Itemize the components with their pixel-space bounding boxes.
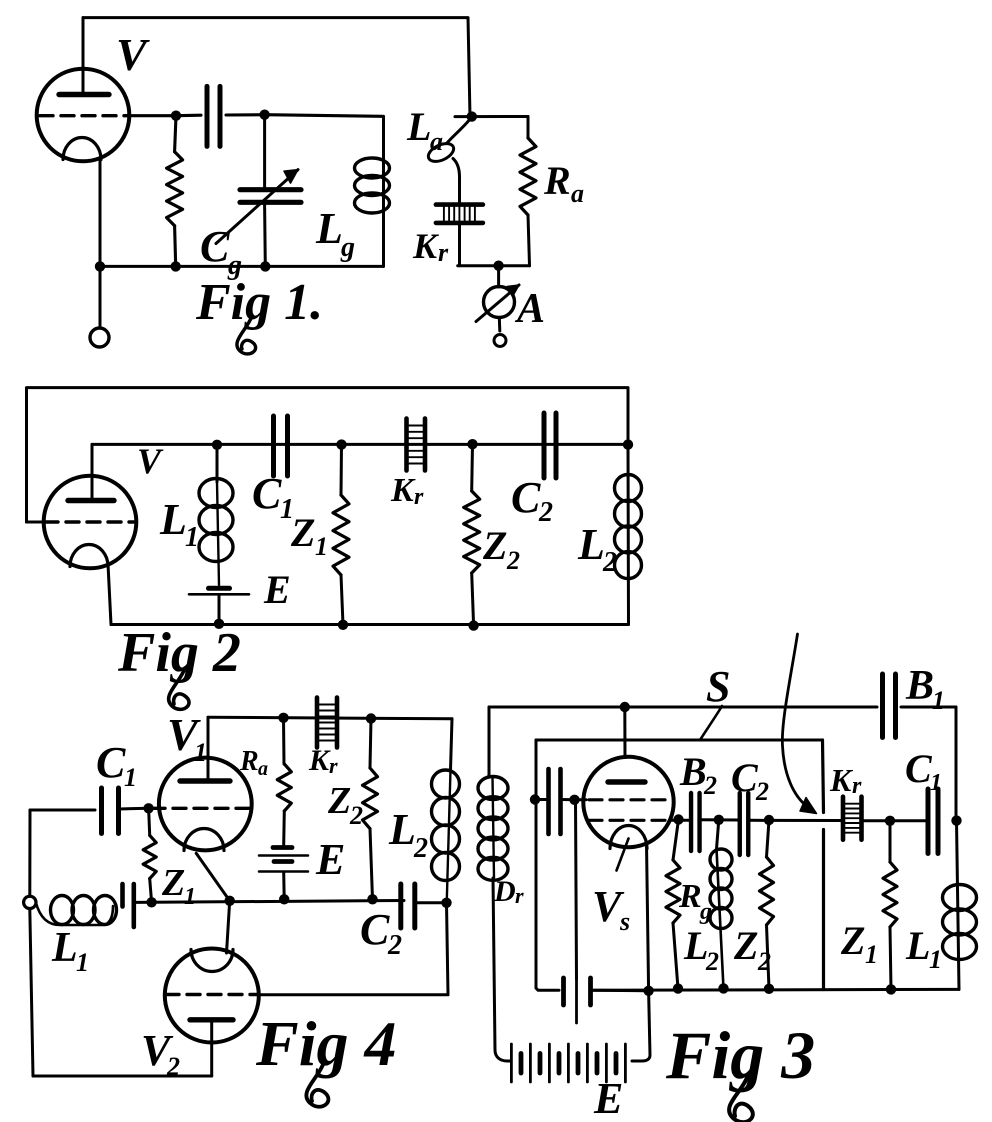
wire lower dashed to node	[670, 819, 691, 822]
svg-text:2: 2	[349, 801, 363, 830]
capacitor C1 Fig4	[99, 788, 104, 834]
svg-text:C: C	[96, 738, 126, 787]
wire grid bias drop	[576, 800, 577, 979]
inductor L2 Fig4	[451, 719, 453, 770]
wire cathode to battery E	[632, 991, 650, 1061]
svg-text:Fig 2: Fig 2	[117, 622, 241, 684]
triode Vs lower grid dashed	[589, 819, 670, 822]
wire mid bus Fig4	[136, 901, 404, 903]
svg-text:a: a	[571, 179, 584, 208]
resistor Ra	[527, 117, 530, 139]
wire anode bus Fig2	[92, 443, 628, 446]
terminal below ammeter	[494, 335, 506, 347]
wire cathode drop Fig2	[108, 564, 111, 625]
bias cell short plate 2	[588, 978, 593, 1005]
wire bottom rail right branch	[458, 264, 530, 267]
resistor Z1 Fig3	[889, 821, 892, 862]
node Z2 top Fig3	[764, 815, 774, 825]
svg-text:C: C	[905, 746, 933, 791]
pointer S to frame	[700, 706, 722, 740]
node anode top Fig3	[620, 702, 630, 712]
wire left edge upper Fig4	[28, 810, 31, 896]
svg-text:Z: Z	[840, 918, 865, 963]
battery E cell Fig2	[209, 586, 230, 591]
wire cathode drop	[99, 158, 102, 328]
wire Vs cathode drop	[647, 843, 649, 991]
terminal left Fig4	[24, 896, 36, 908]
ammeter A	[484, 287, 515, 318]
node Z1 top Fig3	[885, 816, 895, 826]
svg-text:K: K	[829, 762, 854, 798]
node Cg top junction	[259, 110, 269, 120]
triode Vs envelope	[583, 757, 673, 847]
triode V1 grid dashed	[152, 807, 250, 810]
wire C1 to grid node	[119, 807, 149, 811]
svg-text:g: g	[340, 232, 355, 263]
capacitor C2 Fig2	[542, 413, 547, 478]
inductor La single loop	[447, 117, 472, 143]
node grid-leak bottom	[171, 261, 181, 271]
switch S lower blade	[822, 830, 825, 990]
svg-text:1: 1	[124, 763, 137, 792]
inductor Dr choke	[493, 777, 495, 878]
svg-text:2: 2	[703, 771, 717, 800]
triode V2 filament dome inverted	[191, 950, 233, 972]
triode V grid (dashed)	[40, 114, 128, 117]
curved arrow to switch	[782, 634, 807, 807]
wire left to C1	[30, 809, 95, 812]
flourish under Fig4 g	[306, 1062, 328, 1107]
node L2 bottom Fig3	[718, 983, 728, 993]
pointer Vs to tube	[617, 839, 629, 871]
resistor Z1 Fig4	[149, 808, 150, 835]
node Rg top	[673, 814, 683, 824]
svg-text:K: K	[412, 226, 440, 266]
node grid junction Fig3	[569, 795, 579, 805]
svg-text:E: E	[315, 835, 345, 884]
svg-text:Z: Z	[733, 923, 758, 968]
node Z2 bottom	[468, 620, 478, 630]
bias cell short plate	[561, 978, 566, 1005]
triode V1 plate bar	[180, 778, 230, 783]
svg-text:L: L	[159, 495, 187, 544]
wire top rail Fig4	[208, 717, 452, 719]
svg-text:R: R	[239, 746, 259, 777]
svg-text:a: a	[430, 127, 443, 156]
wire junction crossbar	[455, 115, 528, 118]
svg-text:L: L	[388, 805, 416, 854]
resistor Z2 Fig4	[370, 719, 371, 769]
flourish under Fig3 g	[729, 1075, 753, 1122]
svg-text:B: B	[905, 663, 934, 709]
triode V1 envelope	[159, 758, 252, 851]
resistor Z1 Fig2	[340, 445, 344, 495]
crystal Kr Fig3	[841, 797, 846, 840]
node battery bottom Fig4	[279, 894, 289, 904]
node Cg bottom	[260, 261, 270, 271]
battery E Fig4 two cells	[273, 845, 292, 850]
node Z2 bottom Fig3	[764, 984, 774, 994]
wire top rail Fig1	[83, 18, 470, 117]
svg-text:R: R	[678, 878, 702, 915]
resistor Z2 Fig2	[470, 444, 474, 491]
svg-text:Z: Z	[290, 510, 315, 555]
cell bar short Fig4	[120, 884, 125, 907]
svg-text:S: S	[706, 662, 730, 711]
svg-text:Z: Z	[327, 780, 351, 822]
inductor L1 Fig4 horizontal	[36, 902, 113, 925]
wire bottom rail Fig4	[33, 1075, 212, 1078]
capacitor C1 Fig3	[926, 789, 931, 854]
svg-text:r: r	[438, 238, 449, 267]
wire C2 to switch region	[749, 819, 841, 822]
svg-text:C: C	[360, 905, 390, 954]
node cathode bottom	[95, 261, 105, 271]
wire V1 cathode diagonal	[196, 853, 230, 953]
crystal Kr Fig4	[315, 698, 320, 748]
svg-text:r: r	[852, 773, 862, 799]
wire cell to bus	[593, 989, 649, 993]
wire ammeter to terminal	[498, 318, 502, 332]
triode Vs upper grid dashed	[589, 798, 668, 801]
wire right edge top Fig3	[955, 707, 958, 821]
wire anode riser Vs	[623, 707, 626, 758]
node ammeter junction	[493, 261, 503, 271]
battery E Fig3 plates	[510, 1044, 513, 1082]
svg-text:2: 2	[506, 546, 520, 575]
svg-text:L: L	[683, 923, 708, 968]
crystal Kr Fig1	[436, 202, 483, 207]
svg-text:K: K	[308, 744, 331, 777]
node L2 bottom Fig4	[441, 898, 451, 908]
triode V filament dome	[63, 138, 101, 160]
triode V envelope	[37, 69, 130, 162]
node grid junction	[171, 111, 181, 121]
flourish under Fig1 g	[237, 316, 256, 354]
triode V2 grid dashed	[166, 993, 258, 996]
svg-text:2: 2	[387, 930, 402, 961]
triode V Fig2 filament dome	[70, 545, 108, 567]
terminal bottom left	[90, 328, 109, 347]
capacitor C2 Fig4	[398, 884, 403, 928]
svg-text:Fig 3: Fig 3	[665, 1017, 815, 1093]
svg-text:2: 2	[755, 777, 769, 806]
svg-text:1: 1	[315, 532, 328, 561]
inductor L1 Fig3	[957, 821, 960, 990]
wire grid rail to capacitor	[176, 114, 201, 118]
wire inner frame bottom to cell	[536, 988, 559, 990]
wire anode riser Fig2	[91, 444, 94, 501]
wire capacitor to node Cg	[226, 113, 265, 116]
triode Vs plate bar	[608, 779, 645, 784]
wire left edge top Fig3	[488, 707, 491, 777]
inductor Lg	[382, 116, 385, 266]
node Z2 top Fig4	[366, 713, 376, 723]
svg-text:C: C	[252, 469, 282, 518]
node Z1 bottom Fig4	[146, 897, 156, 907]
inductor L2 Fig2	[627, 445, 631, 625]
svg-text:L: L	[905, 923, 930, 968]
svg-text:Fig 1.: Fig 1.	[195, 274, 323, 331]
resistor Ra Fig4	[282, 718, 286, 764]
svg-text:Fig 4: Fig 4	[255, 1008, 396, 1079]
node L1 top	[212, 440, 222, 450]
capacitor grid Fig3	[546, 769, 551, 834]
svg-text:r: r	[414, 484, 424, 510]
node cathode bus Fig3	[643, 986, 653, 996]
wire inner frame top Fig3	[536, 739, 823, 742]
svg-text:Z: Z	[161, 862, 185, 904]
node right edge Fig3	[951, 815, 961, 825]
inductor L2 Fig3	[717, 820, 719, 849]
capacitor grid series	[205, 86, 210, 146]
svg-text:1: 1	[76, 948, 89, 977]
wire to ammeter	[497, 266, 500, 287]
svg-text:B: B	[679, 749, 707, 794]
triode V2 plate bar	[190, 1017, 233, 1022]
wire inner frame left Fig3	[535, 740, 538, 988]
wire grid cap leads	[536, 798, 548, 801]
flourish under Fig2 g	[169, 668, 189, 709]
wire anode riser to top rail	[82, 18, 85, 95]
triode V1 filament dome	[184, 829, 224, 851]
svg-text:V: V	[137, 441, 164, 481]
wire C2 to right node	[415, 901, 447, 904]
wire right drop to V2 grid	[259, 903, 448, 995]
inductor L1 Fig2	[216, 445, 219, 482]
svg-text:L: L	[51, 925, 78, 971]
node Z2 bottom Fig4	[367, 894, 377, 904]
wire anode riser V1	[207, 717, 210, 781]
arrow through Cg	[216, 170, 298, 244]
svg-text:2: 2	[705, 947, 719, 976]
capacitor C2 Fig3	[738, 793, 742, 855]
node right top corner	[623, 439, 633, 449]
wire bottom rail Fig1 left	[100, 265, 384, 268]
svg-text:a: a	[258, 758, 268, 780]
node Z1 bottom Fig3	[886, 984, 896, 994]
svg-text:C: C	[511, 473, 541, 522]
wire Dr to battery	[493, 878, 511, 1061]
svg-text:2: 2	[538, 497, 553, 528]
crystal Kr Fig2	[404, 419, 409, 471]
triode V Fig2 grid dashed	[45, 520, 134, 523]
svg-text:Z: Z	[482, 523, 507, 568]
triode V2 envelope	[165, 949, 259, 1043]
capacitor Cg variable	[263, 115, 266, 188]
node Ra top	[278, 713, 288, 723]
wire Kr to bottom	[458, 225, 461, 266]
wire Kr to Z1 node	[864, 819, 928, 822]
resistor Rg	[673, 820, 679, 861]
triode V Fig2 plate bar	[68, 498, 114, 503]
node Z1 top	[336, 439, 346, 449]
capacitor B1	[880, 674, 885, 738]
svg-text:E: E	[593, 1074, 623, 1122]
triode V plate bar	[59, 92, 109, 97]
node cathode crossing Fig4	[225, 896, 235, 906]
svg-text:2: 2	[602, 547, 617, 578]
svg-text:V: V	[116, 29, 150, 80]
wire grid junction to tube	[575, 798, 587, 801]
svg-text:2: 2	[413, 833, 428, 864]
wire grid lead	[128, 114, 176, 117]
svg-text:E: E	[263, 567, 291, 612]
switch S upper blade	[823, 740, 824, 813]
triode Vs filament dome	[610, 826, 647, 849]
svg-text:1: 1	[930, 770, 942, 796]
svg-text:R: R	[543, 158, 571, 203]
svg-text:r: r	[515, 883, 524, 908]
triode V Fig2 envelope	[44, 476, 137, 569]
node L1 bottom	[214, 619, 224, 629]
svg-text:A: A	[514, 286, 545, 332]
resistor grid leak	[175, 116, 176, 152]
svg-text:1: 1	[185, 522, 199, 553]
node anode-branch junction	[467, 111, 477, 121]
svg-text:1: 1	[194, 738, 207, 767]
node V1 grid junction	[143, 803, 153, 813]
svg-text:s: s	[619, 907, 630, 936]
svg-text:C: C	[200, 222, 230, 271]
wire top rail Fig3	[489, 706, 877, 709]
resistor Z2 Fig3	[767, 820, 770, 857]
svg-text:1: 1	[932, 686, 945, 715]
wire V2 plate drop	[210, 1020, 213, 1076]
svg-text:K: K	[390, 472, 416, 509]
svg-text:L: L	[315, 204, 343, 253]
wire grid lead left	[27, 520, 45, 523]
svg-text:D: D	[493, 875, 516, 908]
wire bottom bus Fig3	[591, 988, 959, 992]
svg-text:1: 1	[184, 884, 196, 910]
bias cell long plate	[575, 979, 578, 1023]
node L2 top Fig3	[714, 815, 724, 825]
cell bar long Fig4	[132, 884, 137, 927]
wire bottom bus Fig2	[111, 623, 629, 626]
svg-text:C: C	[731, 755, 759, 800]
wire B2 to C2 node	[700, 818, 740, 821]
wire left edge lower Fig4	[30, 909, 33, 1076]
svg-text:2: 2	[757, 947, 771, 976]
svg-text:L: L	[577, 520, 605, 569]
svg-text:r: r	[329, 753, 338, 778]
node Z1 bottom	[338, 620, 348, 630]
svg-text:1: 1	[865, 940, 878, 969]
svg-text:L: L	[406, 104, 431, 149]
svg-text:1: 1	[929, 945, 942, 974]
wire node Cg to Lg corner	[265, 115, 382, 117]
node Z2 top	[467, 439, 477, 449]
capacitor B2	[689, 793, 693, 851]
wire top feedback rail Fig2	[27, 388, 629, 522]
node Rg bottom Fig3	[673, 983, 683, 993]
node grid cap left Fig3	[530, 794, 540, 804]
capacitor C1 Fig2	[271, 416, 276, 476]
